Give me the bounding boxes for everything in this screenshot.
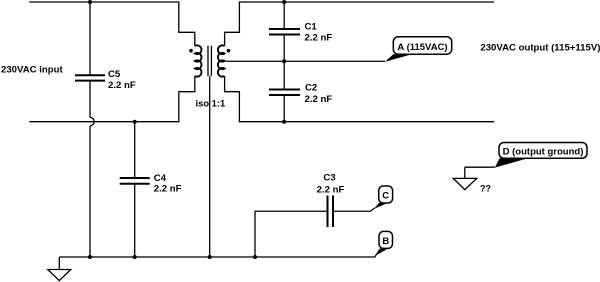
svg-text:2.2 nF: 2.2 nF <box>108 80 136 91</box>
svg-text:C5: C5 <box>108 69 121 80</box>
svg-text:??: ?? <box>480 184 491 194</box>
svg-text:iso 1:1: iso 1:1 <box>196 98 226 109</box>
svg-text:A (115VAC): A (115VAC) <box>397 42 447 53</box>
svg-text:D (output ground): D (output ground) <box>503 147 584 158</box>
svg-text:2.2 nF: 2.2 nF <box>305 33 333 44</box>
svg-text:2.2 nF: 2.2 nF <box>317 184 345 195</box>
svg-text:230VAC output (115+115V): 230VAC output (115+115V) <box>480 43 600 54</box>
svg-text:B: B <box>382 236 389 247</box>
svg-text:C3: C3 <box>323 173 335 184</box>
svg-text:2.2 nF: 2.2 nF <box>305 94 333 105</box>
svg-text:2.2 nF: 2.2 nF <box>154 184 182 195</box>
svg-text:230VAC input: 230VAC input <box>1 64 63 75</box>
svg-text:C1: C1 <box>305 22 318 33</box>
svg-text:C: C <box>382 191 389 202</box>
svg-text:C2: C2 <box>305 83 317 94</box>
svg-text:C4: C4 <box>154 173 167 184</box>
